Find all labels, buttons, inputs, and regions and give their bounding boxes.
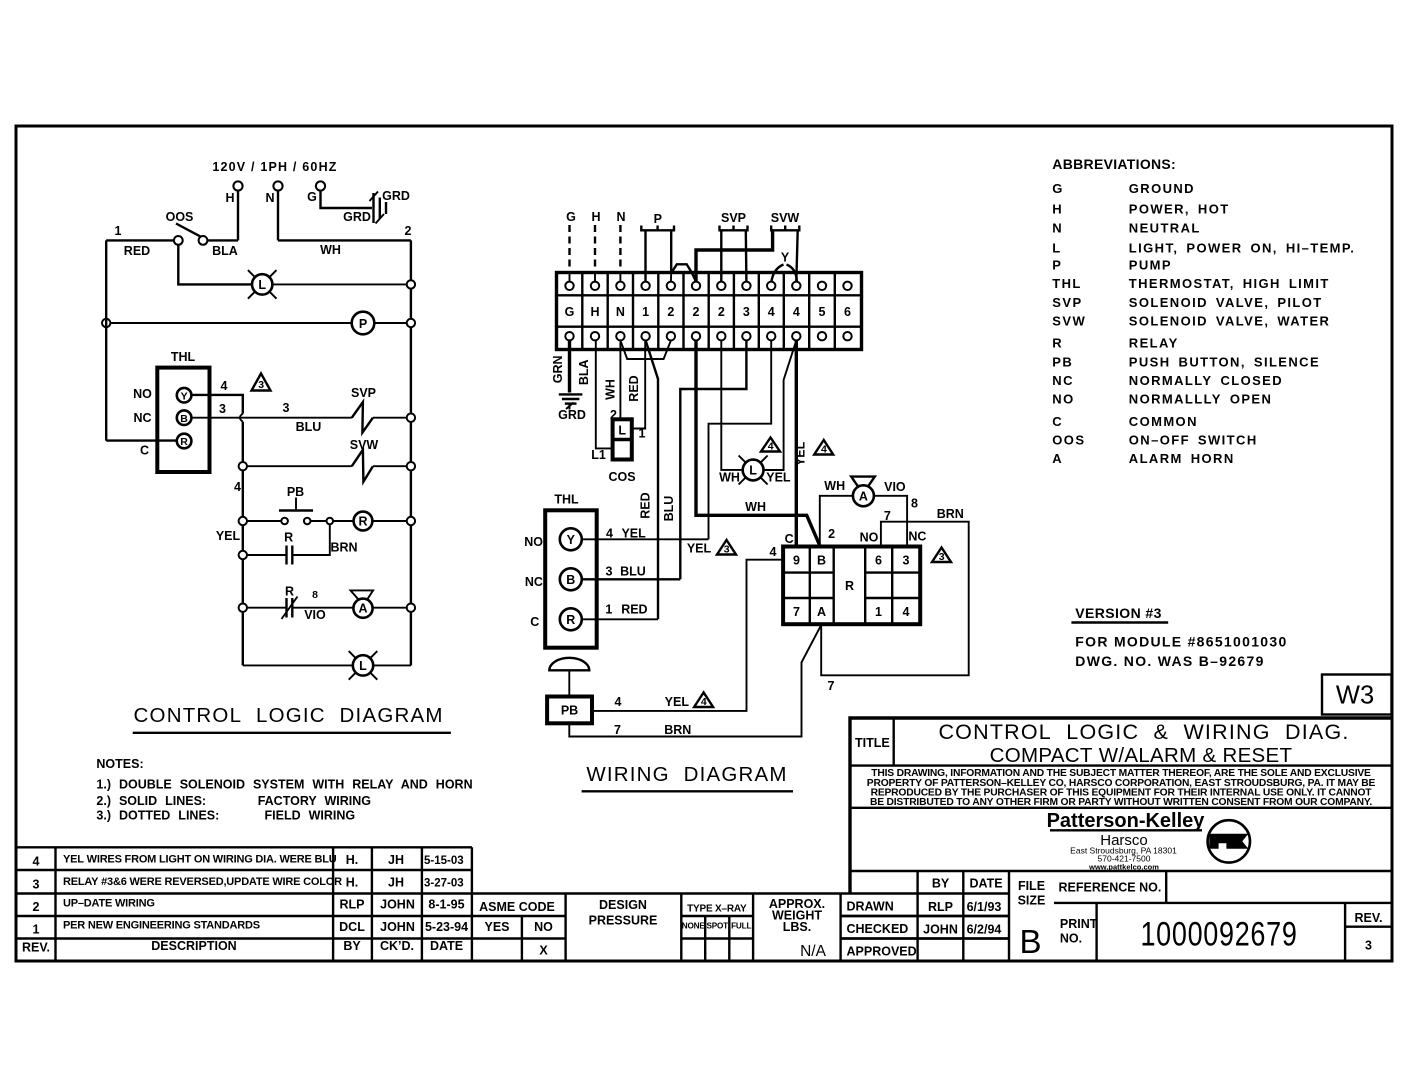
- svg-text:R: R: [285, 585, 294, 599]
- svg-text:A: A: [817, 605, 826, 619]
- junction left PB row: [239, 517, 247, 525]
- svg-text:L: L: [359, 659, 367, 673]
- svg-text:G: G: [307, 190, 317, 204]
- svg-text:P: P: [654, 212, 662, 226]
- svg-text:R: R: [566, 613, 575, 627]
- svg-text:COMMON: COMMON: [1129, 414, 1198, 429]
- wire SVP to bus: [373, 417, 407, 419]
- svg-text:N: N: [265, 191, 274, 205]
- svg-text:6/2/94: 6/2/94: [967, 923, 1002, 937]
- svg-text:THERMOSTAT, HIGH LIMIT: THERMOSTAT, HIGH LIMIT: [1129, 276, 1330, 291]
- svg-text:YEL WIRES FROM LIGHT ON WIRING: YEL WIRES FROM LIGHT ON WIRING DIA. WERE…: [63, 854, 337, 866]
- note triangle 4 lamp: [761, 438, 780, 453]
- svg-text:C: C: [530, 615, 539, 629]
- svg-text:Patterson-Kelley: Patterson-Kelley: [1047, 810, 1206, 832]
- svg-text:H: H: [1052, 201, 1063, 216]
- wire left bus lower: [242, 422, 244, 666]
- svg-text:NONE: NONE: [682, 922, 706, 931]
- svg-text:2: 2: [828, 527, 835, 541]
- svg-text:C: C: [785, 532, 794, 546]
- signature table: [841, 871, 1009, 961]
- svg-text:JOHN: JOHN: [923, 923, 958, 937]
- svg-text:3: 3: [939, 551, 945, 563]
- svg-text:BLU: BLU: [662, 496, 676, 522]
- wire hop over wire 3: [240, 414, 243, 422]
- svg-text:NORMALLLY OPEN: NORMALLLY OPEN: [1129, 392, 1272, 407]
- svg-text:RED: RED: [124, 244, 150, 258]
- svg-text:WH: WH: [745, 500, 766, 514]
- svg-text:ON–OFF SWITCH: ON–OFF SWITCH: [1129, 433, 1258, 448]
- svg-text:5-23-94: 5-23-94: [425, 920, 468, 934]
- zone box W3: [1322, 675, 1392, 715]
- svg-text:SOLENOID VALVE, PILOT: SOLENOID VALVE, PILOT: [1129, 295, 1323, 310]
- abbreviation rows: [1052, 181, 1355, 466]
- svg-text:2: 2: [405, 224, 412, 238]
- svg-text:3-27-03: 3-27-03: [424, 878, 464, 890]
- svg-text:VIO: VIO: [884, 480, 906, 494]
- jumper N to terminal 2: [620, 340, 671, 359]
- svg-text:RELAY #3&6 WERE REVERSED,UPDAT: RELAY #3&6 WERE REVERSED,UPDATE WIRE COL…: [63, 876, 342, 888]
- wire SVP left: [720, 230, 722, 281]
- wire A to bus: [373, 607, 407, 609]
- svg-text:VERSION #3: VERSION #3: [1075, 605, 1161, 621]
- wire GRN ground: [568, 340, 571, 392]
- svg-text:4: 4: [221, 379, 228, 393]
- svg-text:3: 3: [283, 401, 290, 415]
- svg-text:H.: H.: [346, 853, 359, 867]
- lamp L hi-temp: [349, 651, 378, 680]
- svg-text:C: C: [140, 444, 149, 458]
- border frame: [16, 126, 1392, 961]
- note triangle 3: [252, 374, 271, 392]
- svg-text:LIGHT, POWER ON, HI–TEMP.: LIGHT, POWER ON, HI–TEMP.: [1129, 240, 1356, 255]
- svg-text:YEL: YEL: [794, 441, 808, 466]
- note triangle 4: [814, 440, 833, 456]
- svg-text:4: 4: [770, 545, 777, 559]
- svg-text:YEL: YEL: [766, 471, 791, 485]
- svg-text:P: P: [359, 317, 367, 331]
- terminal N: [273, 181, 282, 190]
- svg-text:GRD: GRD: [558, 408, 586, 422]
- wire row1 RED: [106, 239, 174, 241]
- svg-text:R: R: [284, 531, 293, 545]
- svg-text:COS: COS: [608, 470, 635, 484]
- svg-text:BLA: BLA: [577, 359, 591, 385]
- svg-text:4: 4: [903, 605, 910, 619]
- svg-text:GRD: GRD: [382, 189, 410, 203]
- svg-text:4: 4: [768, 305, 775, 319]
- svg-text:8: 8: [312, 589, 318, 601]
- wire WH to alarm: [820, 496, 853, 547]
- junction bus P row: [407, 319, 415, 327]
- svg-text:1: 1: [33, 923, 40, 937]
- svg-text:N: N: [616, 210, 625, 224]
- wire WH row: [278, 239, 411, 241]
- svg-text:NC: NC: [1052, 373, 1074, 388]
- terminal B: [177, 410, 192, 425]
- svg-text:PB: PB: [287, 485, 304, 499]
- junction left A row: [239, 604, 247, 612]
- title block outline: [850, 718, 1392, 894]
- note triangle 3 relay: [932, 548, 951, 564]
- svg-text:TITLE: TITLE: [855, 736, 890, 750]
- horn dome: [549, 658, 589, 671]
- wire SVP right: [745, 230, 748, 281]
- svg-text:G: G: [565, 305, 575, 319]
- svg-text:DWG. NO. WAS B–92679: DWG. NO. WAS B–92679: [1075, 653, 1264, 669]
- svg-text:GRN: GRN: [551, 355, 565, 383]
- svg-text:G: G: [1052, 181, 1064, 196]
- svg-text:FILE: FILE: [1018, 879, 1045, 893]
- svg-text:4: 4: [821, 444, 827, 456]
- svg-text:SVP: SVP: [351, 386, 376, 400]
- wire A row: [247, 607, 287, 609]
- junction bus PB row: [407, 517, 415, 525]
- svg-text:JH: JH: [388, 876, 404, 890]
- svg-text:R: R: [180, 436, 188, 448]
- wire 4 YEL to relay C: [795, 340, 798, 546]
- thermostat THL wiring: [545, 510, 597, 647]
- wire 4 YEL to THL Y: [709, 340, 772, 539]
- title cell: [893, 718, 895, 766]
- svg-text:PRINT: PRINT: [1060, 917, 1098, 931]
- svg-text:3: 3: [903, 554, 910, 568]
- svg-text:2.) SOLID LINES:: 2.) SOLID LINES:: [96, 794, 206, 808]
- wire L to bus: [272, 283, 406, 285]
- svg-text:SVP: SVP: [1052, 295, 1082, 310]
- wire lamp to bus: [373, 664, 411, 666]
- svg-text:FACTORY WIRING: FACTORY WIRING: [258, 794, 371, 808]
- wire P right: [670, 230, 672, 272]
- svg-text:SIZE: SIZE: [1018, 894, 1046, 908]
- svg-text:COMPACT W/ALARM & RESET: COMPACT W/ALARM & RESET: [990, 744, 1293, 767]
- svg-text:YES: YES: [484, 920, 509, 934]
- svg-text:DATE: DATE: [969, 877, 1002, 891]
- svg-text:THL: THL: [1052, 276, 1081, 291]
- svg-text:RED: RED: [621, 603, 647, 617]
- svg-text:WH: WH: [320, 243, 341, 257]
- svg-text:RED: RED: [639, 492, 653, 518]
- svg-text:PB: PB: [561, 704, 578, 718]
- svg-text:LBS.: LBS.: [783, 920, 811, 934]
- svg-text:B: B: [180, 413, 188, 425]
- wire BLA to COS: [596, 340, 611, 448]
- svg-text:NC: NC: [908, 530, 926, 544]
- svg-text:2: 2: [693, 305, 700, 319]
- svg-text:POWER, HOT: POWER, HOT: [1129, 201, 1230, 216]
- wire 3 BLU to THL: [680, 340, 746, 579]
- svg-text:N: N: [1052, 220, 1063, 235]
- wire bottom lamp row: [243, 664, 353, 666]
- svg-text:R: R: [358, 515, 367, 529]
- svg-text:3: 3: [724, 544, 730, 556]
- svg-text:PUSH BUTTON, SILENCE: PUSH BUTTON, SILENCE: [1129, 354, 1320, 369]
- svg-text:W3: W3: [1336, 682, 1374, 710]
- svg-text:120V / 1PH / 60HZ: 120V / 1PH / 60HZ: [212, 160, 337, 174]
- svg-text:NO: NO: [534, 920, 553, 934]
- svg-text:3: 3: [606, 565, 613, 579]
- wire R coil to bus: [372, 520, 406, 522]
- terminal B: [560, 568, 582, 590]
- svg-text:2: 2: [667, 305, 674, 319]
- wire 1 RED R row: [582, 618, 658, 620]
- note triangle 4 PB: [694, 693, 713, 709]
- svg-text:A: A: [859, 489, 868, 503]
- svg-text:DATE: DATE: [430, 939, 463, 953]
- svg-text:H: H: [590, 305, 599, 319]
- wire left bus: [105, 240, 107, 440]
- svg-text:3: 3: [33, 878, 40, 892]
- svg-text:L: L: [1052, 240, 1061, 255]
- thermostat THL: [157, 368, 209, 472]
- svg-text:BY: BY: [932, 877, 950, 891]
- svg-text:ABBREVIATIONS:: ABBREVIATIONS:: [1052, 156, 1176, 172]
- jumper Y split terminals 4-4: [771, 265, 797, 282]
- wire SVW right: [796, 230, 797, 281]
- svg-text:REV.: REV.: [1354, 911, 1382, 925]
- svg-text:4: 4: [234, 480, 241, 494]
- svg-text:WH: WH: [604, 379, 618, 400]
- wire 8 VIO alarm to NC: [874, 496, 907, 547]
- svg-text:JOHN: JOHN: [380, 920, 415, 934]
- relay coil R: [354, 512, 373, 531]
- wire P to bus: [374, 322, 406, 324]
- terminal R: [560, 608, 582, 630]
- terminal Y: [560, 528, 582, 550]
- svg-text:RLP: RLP: [340, 898, 365, 912]
- svg-text:FIELD WIRING: FIELD WIRING: [265, 809, 356, 823]
- svg-text:4: 4: [768, 441, 774, 453]
- svg-text:H: H: [591, 210, 600, 224]
- svg-text:RELAY: RELAY: [1129, 336, 1179, 351]
- svg-text:GRD: GRD: [343, 210, 371, 224]
- svg-text:3: 3: [258, 379, 264, 391]
- svg-text:BLU: BLU: [296, 420, 322, 434]
- logo PK emblem: [1208, 820, 1250, 862]
- reference no row: [1054, 902, 1392, 904]
- svg-text:1: 1: [875, 605, 882, 619]
- junction bus L row: [407, 280, 415, 288]
- svg-text:SOLENOID VALVE, WATER: SOLENOID VALVE, WATER: [1129, 314, 1331, 329]
- terminal G: [316, 181, 325, 190]
- svg-text:3.) DOTTED LINES:: 3.) DOTTED LINES:: [96, 809, 219, 823]
- terminal H: [233, 181, 242, 190]
- wire 4 YEL Y row: [582, 538, 709, 540]
- wire 2 to lamp: [721, 340, 742, 470]
- wire C common: [106, 439, 177, 441]
- wire lamp YEL to terminal 4: [764, 340, 797, 470]
- svg-text:SVW: SVW: [1052, 314, 1086, 329]
- svg-text:SPOT: SPOT: [706, 922, 728, 931]
- wire right bus: [410, 240, 412, 665]
- wire SVW row: [247, 465, 352, 467]
- lamp L power-on: [248, 270, 277, 299]
- svg-text:1: 1: [639, 427, 646, 441]
- svg-text:1.) DOUBLE SOLENOID SYSTEM WIT: 1.) DOUBLE SOLENOID SYSTEM WITH RELAY AN…: [96, 778, 472, 792]
- asme code block: [522, 894, 753, 962]
- svg-text:JH: JH: [388, 853, 404, 867]
- svg-text:THL: THL: [171, 350, 196, 364]
- junction PB-R coil: [327, 518, 334, 525]
- svg-text:THL: THL: [554, 493, 579, 507]
- svg-text:PER NEW ENGINEERING STANDARDS: PER NEW ENGINEERING STANDARDS: [63, 920, 260, 932]
- pump P: [352, 312, 375, 335]
- svg-text:DESCRIPTION: DESCRIPTION: [151, 939, 236, 953]
- svg-text:VIO: VIO: [304, 608, 326, 622]
- svg-text:RED: RED: [627, 375, 641, 401]
- svg-text:PB: PB: [1052, 354, 1073, 369]
- wire WH to COS: [619, 340, 621, 419]
- terminal R: [177, 434, 192, 449]
- wire OOS to H: [207, 239, 238, 241]
- alarm horn A wiring: [851, 477, 875, 507]
- svg-text:7: 7: [884, 509, 891, 523]
- svg-text:1000092679: 1000092679: [1140, 914, 1297, 953]
- wire 4 from Y: [191, 395, 242, 414]
- junction left P row: [102, 319, 110, 327]
- svg-text:7: 7: [614, 723, 621, 737]
- ground GRD: [370, 192, 387, 224]
- svg-text:YEL: YEL: [216, 529, 241, 543]
- svg-text:REV.: REV.: [22, 941, 50, 955]
- note triangle 3: [717, 540, 736, 556]
- svg-text:BLU: BLU: [620, 565, 646, 579]
- svg-text:BRN: BRN: [664, 723, 691, 737]
- svg-text:JOHN: JOHN: [380, 898, 415, 912]
- wire SVW to bus: [373, 465, 407, 467]
- pushbutton PB wiring: [547, 697, 592, 724]
- svg-text:FOR MODULE #8651001030: FOR MODULE #8651001030: [1075, 634, 1287, 650]
- svg-text:CHECKED: CHECKED: [847, 922, 909, 936]
- svg-text:3: 3: [1365, 939, 1372, 953]
- svg-text:WIRING DIAGRAM: WIRING DIAGRAM: [586, 763, 787, 786]
- svg-text:5-15-03: 5-15-03: [424, 855, 464, 867]
- svg-text:CK’D.: CK’D.: [380, 939, 414, 953]
- svg-text:1: 1: [605, 603, 612, 617]
- junction bus SVW row: [407, 462, 415, 470]
- lamp COS L1: [613, 419, 632, 459]
- svg-text:YEL: YEL: [665, 695, 690, 709]
- wire 4 YEL PB to relay: [592, 560, 783, 711]
- svg-text:4: 4: [606, 527, 613, 541]
- ground GRD: [559, 394, 583, 409]
- svg-text:Y: Y: [567, 533, 576, 547]
- svg-text:OOS: OOS: [1052, 433, 1085, 448]
- svg-text:OOS: OOS: [166, 210, 194, 224]
- wire H drop: [237, 191, 239, 241]
- svg-text:NO: NO: [1052, 392, 1074, 407]
- wire 7 BRN NO loop: [821, 522, 969, 676]
- svg-text:4: 4: [615, 695, 622, 709]
- svg-text:L: L: [749, 464, 757, 478]
- svg-text:H: H: [225, 191, 234, 205]
- svg-text:1: 1: [115, 224, 122, 238]
- wire 3 BLU B row: [582, 578, 681, 580]
- svg-text:3: 3: [743, 305, 750, 319]
- svg-text:UP–DATE WIRING: UP–DATE WIRING: [63, 898, 155, 910]
- svg-text:YEL: YEL: [687, 542, 712, 556]
- svg-text:2: 2: [718, 305, 725, 319]
- svg-text:BLA: BLA: [212, 244, 238, 258]
- svg-text:PUMP: PUMP: [1129, 258, 1172, 273]
- svg-text:PRESSURE: PRESSURE: [589, 914, 658, 928]
- svg-text:NORMALLY CLOSED: NORMALLY CLOSED: [1129, 373, 1283, 388]
- svg-text:B: B: [817, 554, 826, 568]
- svg-text:4: 4: [33, 855, 40, 869]
- wire contact up to coil row: [292, 524, 330, 555]
- svg-text:CONTROL LOGIC & WIRING DIA: CONTROL LOGIC & WIRING DIAG.: [938, 720, 1349, 744]
- svg-text:DESIGN: DESIGN: [599, 898, 647, 912]
- svg-text:B: B: [566, 573, 575, 587]
- svg-text:H.: H.: [346, 876, 359, 890]
- svg-text:8: 8: [911, 497, 918, 511]
- svg-text:SVP: SVP: [721, 211, 746, 225]
- svg-text:5: 5: [819, 305, 826, 319]
- svg-text:N/A: N/A: [800, 943, 827, 960]
- svg-text:1: 1: [642, 305, 649, 319]
- svg-text:NEUTRAL: NEUTRAL: [1129, 220, 1201, 235]
- proprietary note: [867, 768, 1376, 808]
- wire N drop: [277, 191, 279, 241]
- wire 3 from B to SVP: [191, 417, 351, 419]
- wire P row: [106, 322, 352, 324]
- svg-text:4: 4: [793, 305, 800, 319]
- svg-text:DRAWN: DRAWN: [847, 900, 894, 914]
- wire SVW coil to terminal 6: [696, 230, 773, 281]
- svg-text:C: C: [1052, 414, 1063, 429]
- svg-text:BRN: BRN: [330, 541, 357, 555]
- svg-text:YEL: YEL: [621, 527, 646, 541]
- wire RED to COS: [632, 340, 645, 428]
- svg-text:TYPE X–RAY: TYPE X–RAY: [687, 904, 747, 915]
- svg-text:WH: WH: [824, 479, 845, 493]
- svg-text:A: A: [358, 602, 367, 616]
- lamp L hi-temp wiring: [739, 456, 768, 485]
- alarm horn A: [351, 590, 374, 617]
- svg-text:RLP: RLP: [928, 900, 953, 914]
- svg-text:L1: L1: [591, 448, 606, 462]
- junction bus A row: [407, 604, 415, 612]
- print no row: [1095, 903, 1097, 961]
- svg-text:R: R: [1052, 336, 1063, 351]
- svg-text:A: A: [1052, 451, 1063, 466]
- svg-text:WH: WH: [719, 471, 740, 485]
- svg-text:REFERENCE NO.: REFERENCE NO.: [1059, 881, 1162, 895]
- wire P left: [644, 230, 646, 281]
- svg-text:ASME CODE: ASME CODE: [479, 900, 555, 914]
- svg-text:ALARM HORN: ALARM HORN: [1129, 451, 1235, 466]
- wire OOS drop to light: [178, 245, 252, 285]
- svg-text:BE DISTRIBUTED TO ANY OTHER FI: BE DISTRIBUTED TO ANY OTHER FIRM OR PART…: [870, 797, 1372, 808]
- svg-text:B: B: [1019, 923, 1041, 960]
- svg-text:G: G: [566, 210, 576, 224]
- terminal Y: [177, 388, 192, 403]
- junction left SVW row: [239, 462, 247, 470]
- svg-text:NO.: NO.: [1060, 932, 1082, 946]
- rev cell: [1344, 903, 1346, 961]
- svg-text:3: 3: [219, 402, 226, 416]
- svg-text:7: 7: [828, 679, 835, 693]
- svg-text:X: X: [539, 944, 548, 958]
- svg-text:APPROVED: APPROVED: [847, 945, 917, 959]
- svg-text:BRN: BRN: [937, 507, 964, 521]
- svg-text:9: 9: [793, 554, 800, 568]
- svg-text:Y: Y: [181, 390, 188, 402]
- junction bus SVP row: [407, 414, 415, 422]
- svg-text:R: R: [845, 579, 854, 593]
- svg-text:6/1/93: 6/1/93: [967, 900, 1002, 914]
- wire 7 BRN PB to relay A: [569, 626, 820, 737]
